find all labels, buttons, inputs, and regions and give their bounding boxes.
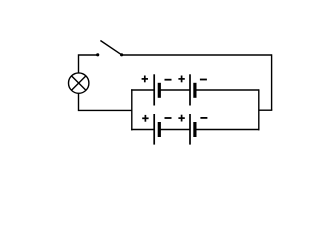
switch S right contact dot	[120, 53, 123, 56]
battery cell B1 negative plate (short thick)	[158, 83, 161, 98]
wire: top row right segment to right bus	[195, 89, 259, 91]
wire: top-left corner from lamp up to switch	[79, 55, 98, 73]
battery cell B3 positive plate (long)	[153, 114, 155, 145]
battery cell B1 - label	[165, 79, 172, 81]
battery cell B2 positive plate (long)	[189, 74, 191, 105]
wire: left bus of battery bank	[131, 89, 133, 130]
battery cell B3 + label	[142, 115, 148, 122]
battery cell B1 + label	[142, 76, 148, 83]
wire: lamp bottom lead	[79, 93, 132, 110]
lamp (circle with X)	[69, 73, 89, 93]
battery cell B3 - label	[165, 117, 172, 119]
battery cell B2 - label	[200, 79, 207, 81]
battery cell B2 negative plate (short thick)	[193, 83, 196, 98]
battery cell B4 - label	[200, 117, 207, 119]
switch S (open) left contact dot	[96, 53, 99, 56]
wire: right outer vertical drop	[271, 54, 273, 110]
wire: bottom row middle segment between cells	[159, 129, 190, 131]
wire: top row left segment	[131, 89, 154, 91]
wire: top horizontal from switch to right side	[122, 54, 272, 56]
battery cell B3 negative plate (short thick)	[158, 122, 161, 137]
battery cell B4 positive plate (long)	[189, 114, 191, 145]
switch S blade (open arm)	[100, 41, 121, 55]
wire: right bus of battery bank	[258, 89, 260, 130]
wire: right connector into battery bank	[259, 109, 273, 111]
battery cell B4 + label	[178, 115, 184, 122]
wire: bottom row right segment to right bus	[195, 129, 259, 131]
battery cell B2 + label	[178, 76, 184, 83]
wire: bottom row left segment	[131, 129, 154, 131]
battery cell B1 positive plate (long)	[153, 74, 155, 105]
wire: top row middle segment between cells	[159, 89, 190, 91]
battery cell B4 negative plate (short thick)	[193, 122, 196, 137]
